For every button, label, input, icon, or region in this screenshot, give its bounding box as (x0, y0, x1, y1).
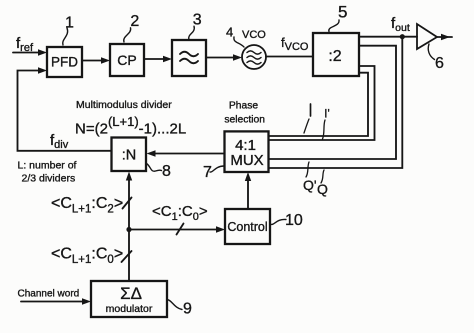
svg-text::2: :2 (328, 48, 341, 65)
label N equation (75, 114, 186, 138)
leader and numeral 4 (226, 25, 244, 48)
block divider :2 (313, 33, 359, 76)
svg-text:Channel word: Channel word (18, 289, 80, 300)
svg-text:Q: Q (317, 181, 328, 197)
block sigma-delta modulator (91, 281, 167, 317)
svg-text:PFD: PFD (51, 55, 78, 70)
label C_1 C_0 bus (152, 203, 208, 223)
block 4:1 MUX (225, 131, 269, 172)
bus slash C_1:C_0 (177, 224, 184, 235)
svg-text:L: number of: L: number of (18, 160, 77, 172)
svg-text:ΣΔ: ΣΔ (120, 284, 142, 303)
svg-text:Multimodulus divider: Multimodulus divider (76, 99, 172, 111)
oscillator VCO 4 (242, 29, 266, 69)
block PFD (47, 47, 82, 77)
svg-text:Q': Q' (303, 177, 317, 193)
svg-text:7: 7 (203, 164, 212, 181)
wire channel word to sigma-delta (21, 298, 91, 304)
leader and numeral 6 (428, 44, 444, 72)
svg-text:Control: Control (227, 220, 267, 234)
svg-text:modulator: modulator (106, 303, 153, 315)
bus slash C_L+1:C_0 (122, 251, 132, 262)
svg-text:MUX: MUX (230, 152, 263, 169)
wire VCO to divider :2 (266, 56, 313, 58)
svg-text::N: :N (122, 148, 137, 164)
svg-text:3: 3 (193, 12, 202, 29)
wire bus to Control (129, 226, 225, 232)
amplifier 6 (417, 24, 452, 49)
leader and numeral 9 (167, 300, 192, 318)
svg-text:Phase: Phase (229, 101, 258, 112)
label f_out (391, 15, 410, 34)
label I with leader (304, 104, 311, 133)
svg-text:8: 8 (162, 163, 171, 180)
svg-text:selection: selection (224, 115, 265, 126)
label Phase selection (224, 101, 265, 126)
wire MUX to :N (147, 150, 225, 156)
label C_L+1 C_2 bus (51, 195, 123, 216)
wire PFD to CP (82, 57, 110, 63)
svg-text:6: 6 (435, 55, 444, 72)
svg-text:5: 5 (338, 3, 347, 22)
wire I output of :2 (outer loop) (269, 73, 368, 136)
node f_out junction (400, 34, 405, 39)
svg-text:2: 2 (130, 13, 139, 30)
label f_ref (16, 35, 34, 54)
wire bus sigma-delta to :N (126, 172, 132, 282)
svg-text:I': I' (324, 109, 329, 121)
svg-text:1: 1 (65, 15, 74, 32)
label f_div (50, 132, 69, 151)
leader and numeral 10 (270, 212, 303, 229)
svg-text:9: 9 (183, 301, 192, 318)
block Control (225, 209, 270, 244)
node bus junction (126, 227, 131, 232)
leader and numeral 3 (189, 12, 202, 40)
leader and numeral 1 (63, 15, 74, 46)
block loop filter (172, 40, 206, 76)
label C_L+1 C_0 bus (51, 246, 123, 267)
wire loop filter to VCO (206, 54, 242, 60)
block CP (110, 44, 144, 76)
label I' with leader (323, 109, 330, 140)
wire f_ref input to PFD (13, 49, 47, 55)
block :N (112, 138, 147, 172)
leader and numeral 8 (147, 163, 172, 180)
leader and numeral 2 (124, 13, 140, 42)
svg-text:10: 10 (285, 212, 303, 229)
wire Control to MUX (245, 172, 251, 209)
bus slash C_L+1:C_2 (123, 198, 132, 209)
leader and numeral 5 (329, 3, 348, 32)
label Q with leader (317, 170, 328, 197)
svg-text:CP: CP (117, 52, 136, 68)
wire Q / f_out output of :2 (269, 37, 417, 168)
wire CP to loop filter (144, 56, 172, 62)
svg-text:VCO: VCO (242, 29, 266, 41)
wire feedback :N to PFD (18, 67, 112, 151)
wire Q' output of :2 (269, 46, 396, 159)
svg-text:2/3 dividers: 2/3 dividers (22, 173, 76, 185)
wire I' output of :2 (269, 66, 375, 140)
leader and numeral 7 (203, 164, 224, 181)
label f_VCO (281, 35, 309, 53)
label Q' with leader (303, 162, 317, 193)
svg-text:4: 4 (226, 25, 233, 40)
label L: number of 2/3 dividers (18, 160, 77, 185)
